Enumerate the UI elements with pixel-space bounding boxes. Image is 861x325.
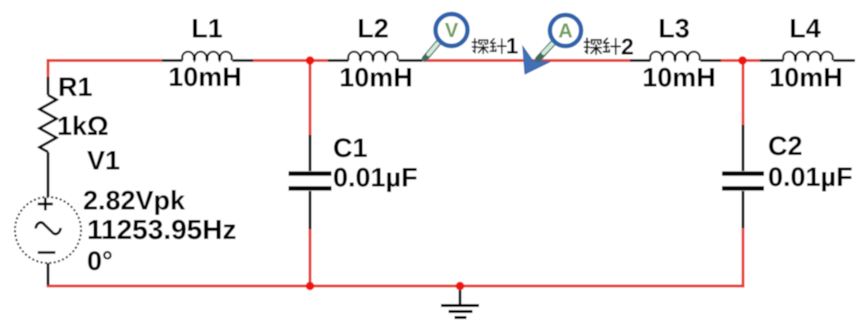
svg-text:V1: V1: [87, 146, 120, 176]
svg-text:10mH: 10mH: [168, 62, 242, 92]
svg-text:C2: C2: [768, 131, 803, 161]
svg-text:V: V: [445, 20, 459, 42]
svg-text:2: 2: [621, 34, 634, 60]
svg-text:10mH: 10mH: [769, 63, 843, 93]
svg-text:1: 1: [506, 34, 518, 59]
svg-text:L3: L3: [658, 14, 690, 44]
svg-text:C1: C1: [333, 133, 368, 163]
svg-text:0.01µF: 0.01µF: [768, 162, 853, 192]
svg-text:1kΩ: 1kΩ: [57, 111, 109, 141]
svg-text:10mH: 10mH: [642, 63, 716, 93]
svg-text:R1: R1: [58, 72, 93, 102]
svg-text:L4: L4: [789, 14, 821, 44]
svg-text:L1: L1: [191, 14, 223, 44]
svg-text:0.01µF: 0.01µF: [333, 163, 418, 193]
svg-text:L2: L2: [357, 14, 389, 44]
svg-text:11253.95Hz: 11253.95Hz: [87, 214, 236, 245]
svg-text:0°: 0°: [87, 246, 113, 276]
svg-text:10mH: 10mH: [339, 63, 413, 93]
svg-text:A: A: [558, 20, 572, 42]
svg-text:2.82Vpk: 2.82Vpk: [83, 186, 186, 216]
